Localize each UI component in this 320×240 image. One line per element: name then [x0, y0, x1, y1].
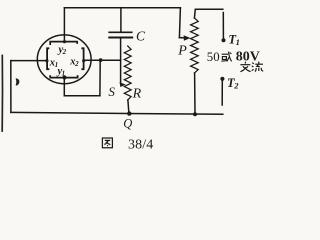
resistor R zigzag: [124, 46, 131, 100]
terminal T1 dot: [222, 38, 226, 42]
wire: top bus from CRT top lead to wiper corner: [64, 7, 180, 9]
junction dot P bottom: [193, 112, 197, 116]
hanzi 交: [240, 62, 250, 72]
ink blot mark: [16, 78, 20, 85]
svg-text:x2: x2: [69, 57, 79, 69]
wire: P wiper arm vertical: [179, 8, 180, 38]
capacitor C plates: [109, 31, 132, 33]
CRT envelope U1: [37, 35, 91, 84]
wire: capacitor C top lead: [120, 8, 122, 33]
svg-text:P: P: [177, 44, 187, 59]
deflection plate y1: [50, 76, 77, 77]
junction dot node Q: [127, 111, 131, 115]
junction blob x1 lead: [45, 59, 48, 62]
potentiometer P zigzag: [191, 18, 199, 73]
wire: y2 plate lead up through envelope: [63, 8, 65, 42]
wire: y1 plate lead down: [63, 78, 65, 96]
svg-text:y2: y2: [57, 44, 67, 56]
wire: left vertical bus: [10, 61, 12, 113]
wire: branch down from x2 node: [99, 60, 101, 96]
svg-text:x1: x1: [49, 57, 58, 69]
svg-text:50: 50: [207, 50, 220, 64]
svg-text:R: R: [132, 86, 142, 101]
caption hanzi 图: [102, 138, 112, 148]
wire: capacitor bottom lead / wiper S stem: [120, 38, 122, 84]
wire: left lead into x1 plate: [11, 60, 47, 62]
svg-text:38/4: 38/4: [128, 137, 153, 152]
page edge scan streak: [1, 56, 3, 132]
hanzi 或: [221, 52, 231, 62]
wire: x2 lead to S stem: [84, 59, 121, 61]
svg-text:80V: 80V: [236, 49, 260, 64]
terminal T2 dot: [220, 77, 224, 81]
junction blob x2 lead: [82, 59, 85, 62]
svg-text:C: C: [136, 29, 146, 44]
deflection plate x1: [47, 48, 48, 69]
svg-text:S: S: [108, 84, 115, 99]
wire: bottom bus: [11, 112, 223, 114]
P wiper arrow: [179, 37, 184, 39]
wiper S arrow: [120, 83, 123, 84]
wire: link across to y1 lead: [64, 95, 100, 97]
hanzi 流: [252, 62, 264, 72]
junction node on x2 lead: [99, 58, 103, 62]
wire: P bottom lead: [194, 73, 196, 114]
junction dot y1 lead: [62, 75, 66, 79]
svg-text:T2: T2: [227, 76, 239, 91]
terminal T1 lead: [222, 13, 224, 38]
deflection plate x2: [82, 48, 83, 69]
junction blob y2 lead: [63, 40, 66, 43]
svg-text:Q: Q: [123, 117, 132, 131]
svg-text:T1: T1: [228, 32, 239, 47]
wire: P top lead and right top bus: [194, 9, 222, 18]
terminal T2 lead: [221, 81, 223, 105]
wire: R bottom lead: [127, 100, 130, 114]
deflection plate y2: [50, 42, 77, 45]
